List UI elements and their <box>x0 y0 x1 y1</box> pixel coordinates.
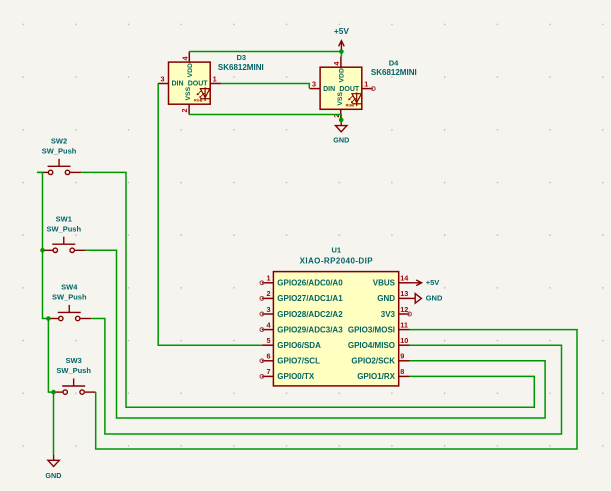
svg-text:GPIO2/SCK: GPIO2/SCK <box>351 357 395 366</box>
svg-text:D4: D4 <box>389 58 399 67</box>
svg-text:GPIO3/MOSI: GPIO3/MOSI <box>348 325 395 334</box>
svg-text:D3: D3 <box>237 53 247 62</box>
svg-text:13: 13 <box>400 289 408 298</box>
svg-text:GND: GND <box>45 471 61 480</box>
svg-text:9: 9 <box>400 352 404 361</box>
svg-text:GPIO29/ADC3/A3: GPIO29/ADC3/A3 <box>277 325 343 334</box>
svg-text:11: 11 <box>400 320 408 329</box>
svg-text:GPIO28/ADC2/A2: GPIO28/ADC2/A2 <box>277 310 343 319</box>
svg-text:GPIO27/ADC1/A1: GPIO27/ADC1/A1 <box>277 294 343 303</box>
svg-text:3V3: 3V3 <box>381 310 396 319</box>
svg-text:6: 6 <box>266 352 270 361</box>
svg-text:1: 1 <box>266 274 270 283</box>
svg-text:GND: GND <box>333 135 349 144</box>
svg-text:+5V: +5V <box>426 278 440 287</box>
svg-text:14: 14 <box>400 274 409 283</box>
svg-text:10: 10 <box>400 336 408 345</box>
svg-text:GPIO6/SDA: GPIO6/SDA <box>277 341 321 350</box>
svg-text:GPIO26/ADC0/A0: GPIO26/ADC0/A0 <box>277 279 343 288</box>
svg-text:SW_Push: SW_Push <box>46 224 81 233</box>
svg-text:U1: U1 <box>332 246 342 255</box>
svg-text:GPIO7/SCL: GPIO7/SCL <box>277 357 320 366</box>
svg-text:GND: GND <box>377 294 395 303</box>
svg-text:5: 5 <box>266 336 270 345</box>
svg-text:GPIO1/RX: GPIO1/RX <box>357 372 395 381</box>
svg-text:VBUS: VBUS <box>373 279 396 288</box>
svg-text:XIAO-RP2040-DIP: XIAO-RP2040-DIP <box>300 257 374 266</box>
svg-text:SW_Push: SW_Push <box>56 366 91 375</box>
svg-text:SW4: SW4 <box>61 283 78 292</box>
svg-text:2: 2 <box>266 289 270 298</box>
svg-text:SW_Push: SW_Push <box>42 147 77 156</box>
svg-text:GND: GND <box>426 294 443 303</box>
svg-text:SW3: SW3 <box>66 356 82 365</box>
svg-text:SK6812MINI: SK6812MINI <box>218 63 264 72</box>
svg-text:8: 8 <box>400 367 404 376</box>
svg-text:7: 7 <box>266 367 270 376</box>
svg-text:SW2: SW2 <box>51 137 67 146</box>
svg-text:GPIO0/TX: GPIO0/TX <box>277 372 315 381</box>
svg-text:SW1: SW1 <box>56 214 72 223</box>
svg-text:GPIO4/MISO: GPIO4/MISO <box>348 341 395 350</box>
svg-text:SK6812MINI: SK6812MINI <box>371 68 417 77</box>
svg-text:+5V: +5V <box>334 26 349 36</box>
svg-text:12: 12 <box>400 305 408 314</box>
svg-text:3: 3 <box>266 305 270 314</box>
svg-text:SW_Push: SW_Push <box>52 293 87 302</box>
